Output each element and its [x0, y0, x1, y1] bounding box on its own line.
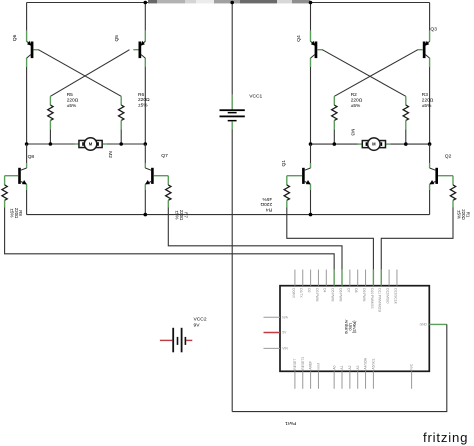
junction dots right motor rail — [309, 142, 313, 146]
svg-text:D3 PWM: D3 PWM — [315, 288, 319, 301]
svg-text:Q7: Q7 — [161, 153, 168, 159]
wire: R4 to Arduino D10 — [287, 208, 374, 270]
svg-text:ioref: ioref — [317, 363, 321, 369]
Arduino bottom pins RESET..A5 and N/C — [294, 371, 296, 389]
svg-text:N/A: N/A — [282, 315, 288, 319]
Arduino U1 body — [280, 286, 429, 372]
svg-text:D13/SCLK: D13/SCLK — [393, 288, 397, 304]
wire: Q8 emitter down — [26, 184, 28, 190]
svg-text:D2: D2 — [307, 288, 311, 292]
wire: column x=310.5 (Q4 branch) — [310, 3, 312, 31]
wire: Q5 base cross to R5 — [50, 50, 129, 97]
wire: Q8 base to R8 — [5, 175, 19, 177]
transistor Q2 — [429, 168, 438, 185]
junction dots top rail — [144, 1, 148, 5]
svg-text:±5%: ±5% — [262, 196, 272, 202]
Arduino right pin GND — [429, 323, 447, 325]
svg-text:R5: R5 — [67, 92, 73, 98]
svg-text:Q5: Q5 — [114, 35, 120, 42]
resistor R1 — [450, 185, 455, 208]
transistor Q7 — [145, 168, 154, 185]
Arduino bottom pin labels — [293, 357, 414, 370]
svg-text:R3: R3 — [422, 92, 428, 98]
svg-text:±5%: ±5% — [9, 209, 14, 218]
resistor R2 — [332, 96, 337, 144]
svg-text:±5%: ±5% — [138, 102, 148, 108]
junction emitter rail — [144, 213, 148, 217]
svg-text:D11 PWM/MOSI: D11 PWM/MOSI — [378, 288, 382, 312]
svg-text:D4: D4 — [323, 288, 327, 292]
battery VCC1 — [220, 3, 245, 412]
wire: Q1 collector column — [310, 144, 312, 163]
svg-text:R6: R6 — [138, 92, 144, 98]
svg-text:A5/SCL: A5/SCL — [372, 358, 376, 370]
Arduino title — [344, 320, 357, 335]
svg-text:A0: A0 — [332, 365, 336, 369]
wire: Q2 base to R1 — [438, 175, 453, 177]
svg-text:R4: R4 — [266, 206, 272, 212]
clipped grey bar over top rail — [148, 0, 310, 3]
Arduino left pin 5V (red) — [264, 332, 281, 334]
svg-text:GND: GND — [420, 323, 428, 327]
svg-text:D7: D7 — [346, 288, 350, 292]
svg-text:A1: A1 — [340, 365, 344, 369]
resistor R5 — [48, 96, 53, 144]
value label R8 (rotated) — [9, 208, 23, 219]
wire: GND loop to battery minus — [232, 324, 447, 411]
svg-text:±5%: ±5% — [351, 103, 361, 109]
svg-text:A3: A3 — [356, 365, 360, 369]
wire: Q7 collector column — [144, 144, 146, 163]
svg-text:Q4: Q4 — [296, 35, 302, 42]
resistor R7 — [166, 185, 171, 208]
Arduino left pin VIN — [264, 347, 281, 349]
wire: Q8 collector column — [26, 144, 28, 163]
motor M3 — [311, 138, 430, 151]
svg-text:9V: 9V — [194, 323, 201, 329]
svg-text:±5%: ±5% — [422, 103, 432, 109]
svg-text:A2: A2 — [348, 365, 352, 369]
svg-text:RESET: RESET — [293, 359, 297, 370]
svg-text:220Ω: 220Ω — [67, 98, 79, 104]
resistor R4 — [284, 185, 289, 208]
svg-text:AREF: AREF — [309, 361, 313, 370]
wire: R1 to Arduino D11 — [381, 208, 453, 270]
transistor Q4 — [311, 41, 323, 58]
wire: column x=429.6 (Q3 branch) — [429, 3, 431, 31]
svg-text:220Ω: 220Ω — [260, 201, 272, 207]
wire: Q1 emitter down — [310, 184, 312, 190]
svg-text:Pwr1: Pwr1 — [285, 420, 296, 426]
svg-text:D0/RX: D0/RX — [291, 288, 295, 299]
resistor R8 — [2, 185, 7, 208]
svg-text:RESET2: RESET2 — [301, 357, 305, 370]
svg-text:A4/SDA: A4/SDA — [364, 357, 368, 370]
svg-text:VCC2: VCC2 — [194, 317, 207, 323]
svg-text:Q6: Q6 — [12, 34, 18, 41]
wire: Q2 emitter down — [429, 184, 431, 190]
wire: Q4 base cross to R3 — [322, 50, 406, 97]
svg-text:D9 PWM: D9 PWM — [362, 288, 366, 301]
wire: Q7 emitter down — [144, 184, 146, 190]
svg-text:D8: D8 — [354, 288, 358, 292]
svg-text:D12/MISO: D12/MISO — [386, 288, 390, 304]
svg-text:D6 PWM: D6 PWM — [338, 288, 342, 301]
svg-text:N/C: N/C — [410, 363, 414, 369]
svg-text:Q3: Q3 — [430, 27, 437, 33]
wire: Q6 base cross to R6 — [38, 50, 121, 97]
svg-text:VCC1: VCC1 — [249, 94, 262, 100]
transistor Q5 — [133, 41, 145, 58]
wire: Q3 base cross to R2 — [334, 50, 418, 97]
wire: Q2 collector column — [429, 144, 431, 163]
svg-text:M3: M3 — [350, 129, 356, 136]
wire: Q1 base to R4 — [287, 175, 302, 177]
svg-text:D1/TX: D1/TX — [299, 288, 303, 298]
battery VCC2 — [160, 328, 192, 353]
value label R4 (rotated 180) — [260, 196, 272, 213]
svg-text:Arduino: Arduino — [344, 320, 349, 335]
svg-text:R2: R2 — [351, 92, 357, 98]
motor M2 — [27, 138, 146, 151]
svg-text:Q2: Q2 — [445, 154, 452, 160]
wire: left column x=26.6 (Q6 branch) — [26, 3, 28, 31]
transistor Q6 — [27, 41, 39, 58]
value label R7 (rotated) — [175, 210, 189, 221]
Arduino left pin N/A — [264, 316, 281, 318]
svg-text:220Ω: 220Ω — [351, 98, 363, 104]
resistor R3 — [403, 96, 408, 144]
svg-text:D5 PWM: D5 PWM — [331, 288, 335, 301]
transistor Q1 — [302, 168, 311, 185]
transistor Q8 — [18, 168, 27, 185]
svg-text:D10 PWM/SS: D10 PWM/SS — [370, 288, 374, 309]
svg-text:Q1: Q1 — [281, 160, 287, 167]
wire: R7 to Arduino D6 — [168, 208, 342, 270]
Arduino top pins D0-D13 — [294, 270, 296, 286]
svg-text:±5%: ±5% — [457, 210, 462, 219]
svg-text:220Ω: 220Ω — [422, 98, 434, 104]
wire: Q7 base to R7 — [154, 175, 169, 177]
svg-text:M2: M2 — [107, 151, 113, 158]
svg-text:±5%: ±5% — [67, 103, 77, 109]
svg-text:VIN: VIN — [282, 347, 288, 351]
wire: R8 to Arduino D5 — [5, 208, 335, 270]
wire: emitter rail — [27, 214, 430, 216]
svg-text:Q8: Q8 — [28, 154, 35, 160]
junction dots left motor rail — [25, 142, 29, 146]
svg-text:fritzing: fritzing — [423, 430, 468, 445]
svg-text:220Ω: 220Ω — [138, 97, 150, 103]
value label R1 (rotated) — [457, 209, 471, 220]
resistor R6 — [119, 96, 124, 144]
Arduino top pin labels — [291, 288, 397, 312]
wire top VCC rail — [27, 2, 430, 4]
transistor Q3 — [418, 41, 430, 58]
wire: column x=145.3 (Q5 branch) — [144, 3, 146, 31]
